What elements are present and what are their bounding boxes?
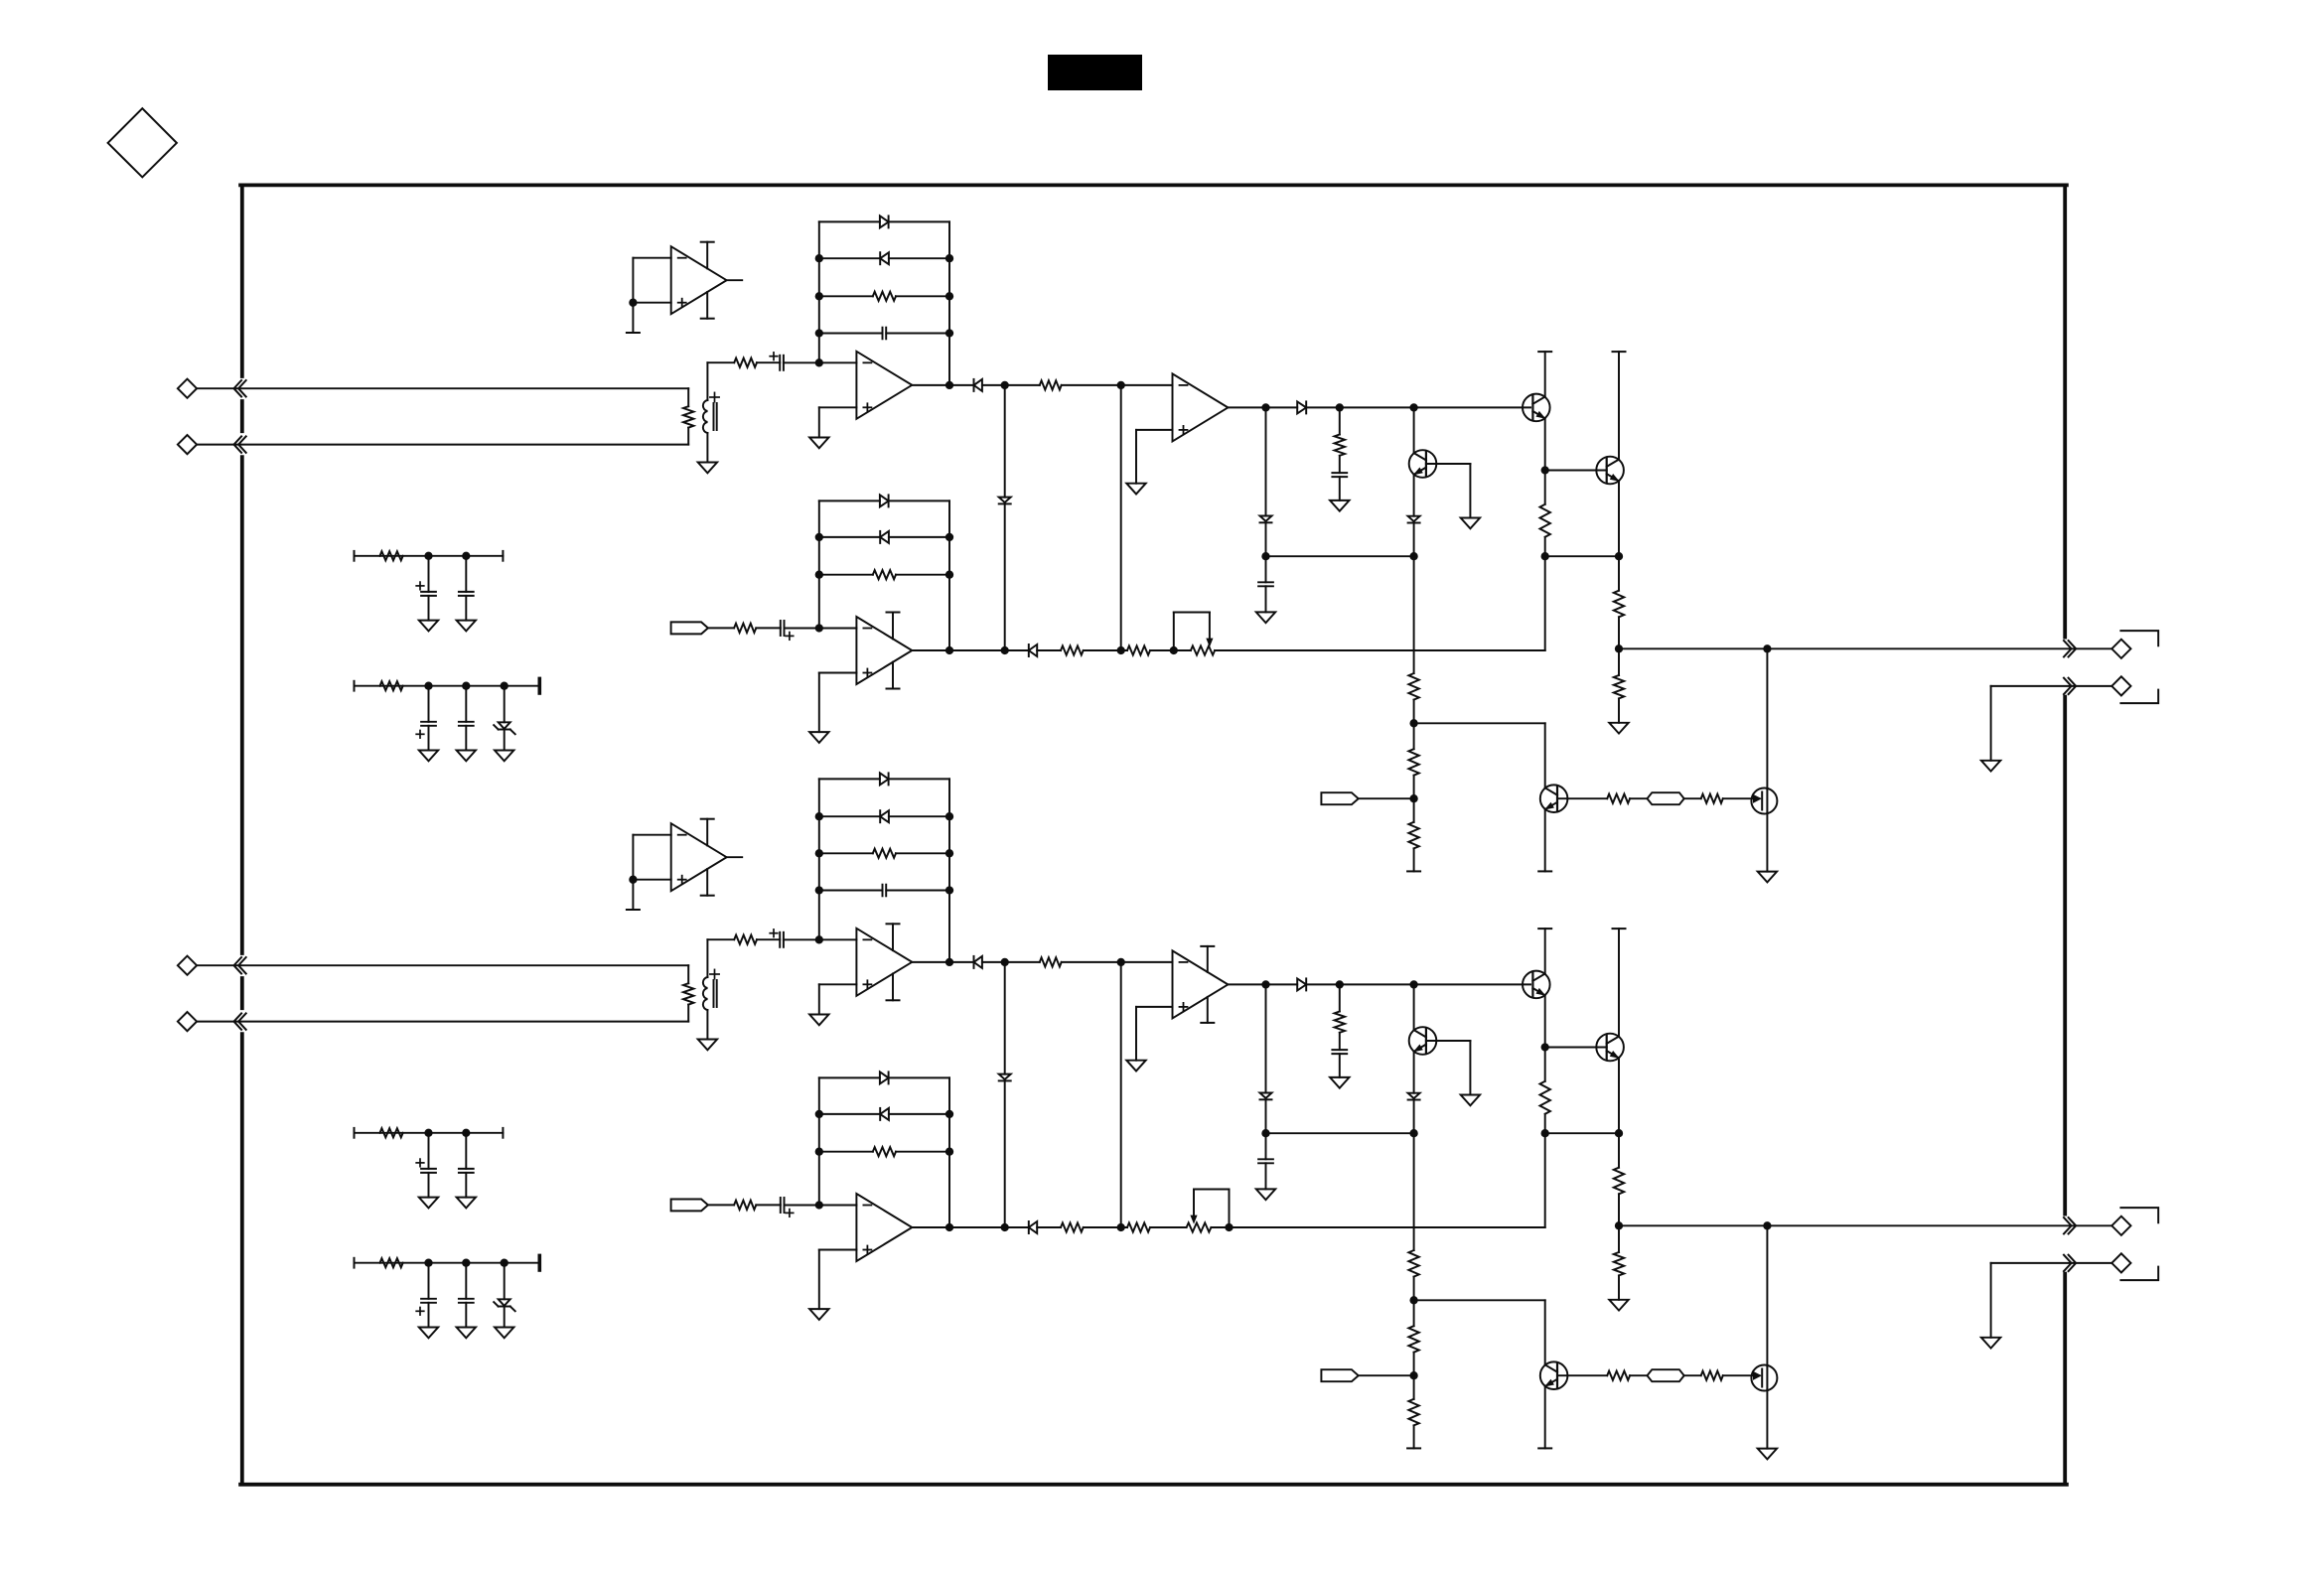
polarity plus mark transformer ch2 [710, 973, 719, 975]
supply tick bias rail ch1 [1407, 870, 1420, 872]
wire feedback rail to trimmer row ch2 [1544, 1133, 1546, 1227]
node Q14 emitter row [1615, 552, 1623, 560]
diode A23 feedback limiter (anode left) [819, 1076, 880, 1078]
capacitor filter 2 film ch1 [465, 686, 467, 722]
wire Q24 emitter down [1618, 1058, 1620, 1133]
wire Q12 base to ground ch1 [1426, 463, 1471, 465]
capacitor filter 2 film ch2 [465, 1263, 467, 1299]
chevron input hot ch1 [234, 380, 242, 396]
chevron input hot ch2 [234, 957, 242, 973]
node Q22 emitter row [1409, 1129, 1417, 1137]
wire A11 output [912, 384, 973, 386]
node Q22 collector tap ch2 [1409, 980, 1417, 988]
node A21 inverting input [815, 935, 823, 943]
wire U1 non-inverting [633, 302, 670, 304]
ground filter 2 zener ch1 [495, 751, 513, 762]
node filter 2 zener ch1 [501, 682, 508, 690]
wire Q11 collector to supply tick [1544, 352, 1546, 396]
wire A22 output to driver base [1306, 983, 1530, 985]
resistor Q15 base [1607, 794, 1630, 803]
ground transformer return ch2 [698, 1040, 717, 1051]
bracket output group top ch2 [2120, 1208, 2158, 1222]
input connector J2A (hot) [178, 956, 197, 975]
wire U2 non-inverting [633, 879, 670, 881]
wire Q21 emitter down [1544, 995, 1546, 1047]
op-amp A21 power pins [892, 924, 894, 950]
capacitor filter 1 electrolytic ch1 [428, 556, 430, 592]
wire ch1 [756, 627, 781, 629]
resistor A11 feedback [819, 295, 873, 297]
op-amp A22 power pins [1207, 946, 1209, 972]
capacitor filter 1 film ch2 [465, 1133, 467, 1169]
wire to A12 inverting input [1062, 384, 1173, 386]
op-amp A13 (third stage) [856, 617, 912, 684]
wire supply filter 2 ch1 [354, 681, 356, 691]
resistor bias middle ch1 [1413, 723, 1415, 749]
input connector J1B (cold) [178, 435, 197, 454]
transformer core bars ch1 [713, 403, 715, 430]
chevron input cold ch1 [234, 436, 242, 452]
node A23 output [945, 1223, 953, 1231]
capacitor A13 input (electrolytic) [780, 621, 782, 636]
diode rail A downward ch2 [999, 1074, 1011, 1079]
capacitor A23 input (electrolytic) [780, 1198, 782, 1213]
output connector P2A [2075, 1224, 2111, 1226]
transistor Q11 (driver) [1523, 394, 1550, 422]
wire gate ch1 [1723, 797, 1760, 799]
wire A13 output [912, 649, 1029, 651]
diode series after A22 (anode left) [1297, 978, 1306, 990]
op-amp A13 power pins [892, 613, 894, 640]
wire gate ch2 [1723, 1374, 1760, 1376]
node filter 2 zener ch2 [501, 1259, 508, 1267]
node filter 2 cap2 ch2 [462, 1259, 470, 1267]
input connector J1A (hot) [178, 379, 197, 398]
input connector J2B (cold) [178, 1012, 197, 1031]
node filter 2 cap1 ch1 [424, 682, 432, 690]
node Q12 collector tap ch1 [1409, 403, 1417, 411]
ground A11 non-inverting [809, 438, 828, 449]
node A12 output [1261, 403, 1269, 411]
resistor input termination ch1 [687, 388, 689, 406]
wire rail C down ch2 [1265, 984, 1267, 1092]
ground filter 1 cap1 ch1 [419, 621, 438, 632]
node Q24 emitter row [1615, 1129, 1623, 1137]
diode series A13 output (cathode left) [1029, 644, 1037, 656]
wire to input RC ch1 [707, 361, 734, 363]
resistor snub ch1 [1339, 407, 1341, 434]
resistor A23 output 1 [1061, 1222, 1084, 1231]
transistor Q21 (driver) [1523, 971, 1550, 999]
node A11 output [945, 381, 953, 389]
polarity plus mark transformer ch1 [710, 396, 719, 398]
border frame [240, 185, 2067, 1484]
resistor supply filter 1 ch1 [380, 551, 403, 560]
rail end bar filter 2 ch1 [537, 678, 541, 693]
output connector P1A [2075, 647, 2111, 649]
resistor supply filter 2 ch1 [380, 681, 403, 690]
ground filter 2 cap1 ch2 [419, 1328, 438, 1339]
wire bias to Q25 collector [1414, 1299, 1545, 1301]
wire ch1 [1150, 649, 1191, 651]
ground A23 non-inverting [809, 1309, 828, 1320]
wire input hot ch1 [197, 387, 688, 389]
rail end tick filter 1 ch2 [502, 1128, 504, 1138]
inductor transformer winding ch1 [706, 362, 708, 400]
node Q11 emitter / Q14 base [1541, 466, 1549, 474]
wire rail B down ch2 [1120, 962, 1122, 1227]
op-amp A12 (second stage) [1173, 373, 1229, 441]
wire U1 feedback tie [633, 257, 670, 259]
capacitor input coupling ch2 (electrolytic) [779, 932, 781, 947]
resistor bias upper ch1 [1413, 556, 1415, 673]
bracket output group bottom ch1 [2120, 690, 2158, 704]
resistor A23 feedback [819, 1151, 873, 1153]
diode A21 feedback limiter (anode left) [819, 778, 880, 780]
op-amp U2 spare buffer [671, 823, 727, 891]
node rail C row ch1 [1261, 552, 1269, 560]
transformer core bars ch2 [713, 980, 715, 1007]
revision diamond top-left [108, 108, 177, 177]
diode A13 feedback limiter (anode right) [819, 536, 880, 538]
resistor input series ch1 [734, 358, 757, 367]
ground filter 1 cap2 ch1 [457, 621, 476, 632]
ground Q12 base [1461, 518, 1480, 529]
resistor MOSFET gate ch1 [1701, 794, 1723, 803]
wire A12 output to driver base [1306, 406, 1530, 408]
supply tick bias rail ch2 [1407, 1447, 1420, 1449]
ground divider ch2 [1609, 1300, 1628, 1311]
node trimmer wiper tap ch1 [1170, 646, 1178, 654]
wire output line ch1 [1619, 647, 2075, 649]
wire A13 non-inverting to ground [819, 672, 857, 674]
diode A13 feedback limiter (anode left) [819, 500, 880, 501]
resistor Q11 emitter ch1 [1544, 471, 1546, 504]
diode A23 feedback limiter (anode right) [819, 1113, 880, 1115]
wire ch1 [757, 361, 780, 363]
wire ch2 [757, 938, 780, 940]
wire A11 feedback left rail [818, 221, 820, 362]
chevron output ch2 [2064, 1217, 2072, 1233]
node tap rail A ch1 [1001, 381, 1009, 389]
supply tick U2 [627, 909, 640, 911]
wire rail A down ch2 [1004, 962, 1006, 1074]
node rail B bottom ch2 [1117, 1223, 1125, 1231]
wire Q24 collector to supply tick [1618, 929, 1620, 1037]
capacitor rail C to ground ch1 [1265, 556, 1267, 582]
node A11 inverting input [815, 358, 823, 366]
zener supply clamp ch2 [504, 1263, 506, 1300]
wire output return ch2 [1991, 1262, 2075, 1264]
transistor Q12 [1413, 407, 1415, 453]
wire output line ch2 [1619, 1224, 2075, 1226]
ground filter 2 cap2 ch2 [457, 1328, 476, 1339]
wire tag to resistor ch2 [708, 1204, 734, 1206]
bracket output group bottom ch2 [2120, 1267, 2158, 1281]
ground filter 2 cap2 ch1 [457, 751, 476, 762]
node filter 2 cap1 ch2 [424, 1259, 432, 1267]
wire row C-D ch1 [1266, 555, 1414, 557]
node filter 1 cap2 ch2 [462, 1129, 470, 1137]
wire trimmer to feedback rail ch1 [1215, 649, 1545, 651]
node bias collector tap ch2 [1409, 1296, 1417, 1304]
trimmer potentiometer ch1 [1191, 645, 1215, 654]
node filter 1 cap1 ch1 [424, 552, 432, 560]
node bias label tap ch2 [1409, 1371, 1417, 1379]
wire rail A down ch1 [1004, 385, 1006, 498]
wire Q15 base [1557, 797, 1607, 799]
rail end bar filter 2 ch2 [537, 1255, 541, 1270]
wire U2 feedback tie [633, 834, 670, 836]
op-amp U1 power pins [706, 242, 708, 269]
ground Q22 base [1461, 1095, 1480, 1106]
rail end tick filter 1 ch1 [502, 551, 504, 561]
wire ch1 [1630, 797, 1647, 799]
wire tag to bias rail ch1 [1359, 797, 1414, 799]
transistor Q25 (mute) [1540, 1361, 1568, 1389]
node filter 2 cap2 ch1 [462, 682, 470, 690]
resistor divider upper ch2 [1618, 1133, 1620, 1168]
wire rail C down ch1 [1265, 407, 1267, 515]
net label mute tag ch2 [1321, 1369, 1358, 1381]
resistor divider lower ch1 [1618, 648, 1620, 675]
chevron output return ch2 [2064, 1255, 2072, 1271]
transistor Q24 [1596, 1034, 1624, 1062]
ground snub ch1 [1330, 500, 1349, 511]
wire input hot ch2 [197, 964, 688, 966]
node rail C row ch2 [1261, 1129, 1269, 1137]
wire ch2 [1630, 1374, 1647, 1376]
ground Q26 source [1758, 1449, 1777, 1460]
ground output return ch2 [1981, 1338, 2000, 1349]
ground Q16 source [1758, 872, 1777, 883]
node output MOSFET drain tap ch2 [1763, 1221, 1771, 1229]
wire Q21 emitter to Q24 base [1545, 1047, 1607, 1049]
diode series after A11 (cathode left) [974, 379, 982, 391]
node row left ch2 [1541, 1129, 1549, 1137]
resistor A23 input [734, 1201, 756, 1210]
wire supply filter 2 ch2 [354, 1258, 356, 1268]
node tap rail B ch2 [1117, 958, 1125, 966]
resistor supply filter 2 ch2 [380, 1258, 403, 1267]
wire into A23 inverting input [785, 1205, 857, 1207]
wire row left-right ch1 [1545, 555, 1619, 557]
wire tag to resistor ch1 [708, 627, 734, 629]
resistor input series ch2 [734, 935, 757, 944]
node row left ch1 [1541, 552, 1549, 560]
capacitor snub ch2 [1339, 1033, 1341, 1050]
capacitor rail C to ground ch2 [1265, 1133, 1267, 1159]
wire Q15 emitter to tick [1544, 809, 1546, 871]
resistor interstage ch1 [1040, 380, 1062, 389]
resistor supply filter 1 ch2 [380, 1128, 403, 1137]
node A13 output [945, 646, 953, 654]
resistor MOSFET gate ch2 [1701, 1371, 1723, 1380]
node output tap ch1 [1615, 644, 1623, 652]
diode rail A downward ch1 [999, 498, 1011, 502]
wire into A21 inverting input [784, 938, 857, 940]
wire A11 to A12 [982, 384, 1040, 386]
ground rail C ch2 [1256, 1189, 1275, 1200]
wire into A13 inverting input [785, 628, 857, 630]
node A23 inverting input [815, 1201, 823, 1209]
node Q12 emitter row [1409, 552, 1417, 560]
net label input tag ch2 [671, 1200, 708, 1212]
diode Q12 emitter downward [1413, 475, 1415, 516]
op-amp A11 (first stage) [856, 352, 912, 419]
resistor A13 output 2 [1127, 645, 1150, 654]
resistor A23 output 2 [1127, 1222, 1150, 1231]
wire ch2 [756, 1204, 781, 1206]
node Q21 emitter / Q24 base [1541, 1043, 1549, 1051]
transistor Q22 [1413, 984, 1415, 1030]
capacitor A21 feedback [819, 890, 883, 892]
wire Q14 emitter down [1618, 481, 1620, 556]
wire input cold ch2 [197, 1021, 688, 1023]
resistor bias lower ch1 [1413, 798, 1415, 822]
wire A22 non-inverting to ground [1136, 1006, 1173, 1008]
resistor A13 output 1 [1061, 645, 1084, 654]
node bias label tap ch1 [1409, 794, 1417, 802]
wire A23 output [912, 1226, 1029, 1228]
op-amp A21 (first stage) [856, 929, 912, 996]
wire ch2 [1684, 1374, 1701, 1376]
op-amp A23 (third stage) [856, 1194, 912, 1261]
wire ch2 [1150, 1226, 1187, 1228]
diode Q22 emitter downward [1413, 1052, 1415, 1093]
resistor A13 input [734, 624, 756, 633]
wire tag to bias rail ch2 [1359, 1374, 1414, 1376]
title block (blacked out) [1048, 55, 1142, 90]
wire ch1 [1037, 649, 1061, 651]
wire row left-right ch2 [1545, 1132, 1619, 1134]
diode series A23 output (cathode left) [1029, 1221, 1037, 1233]
net label mute line ch2 [1648, 1369, 1684, 1381]
wire ch2 [1084, 1226, 1127, 1228]
node tap rail B ch1 [1117, 381, 1125, 389]
wire Q25 base [1557, 1374, 1607, 1376]
node U1 input tie [629, 299, 637, 307]
wire to input RC ch2 [707, 938, 734, 940]
capacitor input coupling ch1 (electrolytic) [779, 356, 781, 370]
output connector P2B [2075, 1262, 2111, 1264]
node filter 1 cap2 ch1 [462, 552, 470, 560]
resistor bias lower ch2 [1413, 1375, 1415, 1399]
capacitor filter 1 electrolytic ch2 [428, 1133, 430, 1169]
wire A21 to A22 [982, 961, 1040, 963]
resistor divider upper ch1 [1618, 556, 1620, 591]
ground A12 non-inverting [1126, 484, 1145, 495]
supply tick U1 [627, 332, 640, 334]
op-amp U1 spare buffer [671, 246, 727, 314]
wire feedback rail to trimmer row ch1 [1544, 556, 1546, 650]
wire bias to Q15 collector [1414, 722, 1545, 724]
resistor Q21 emitter ch2 [1544, 1048, 1546, 1081]
chevron input cold ch2 [234, 1013, 242, 1029]
wire input cold ch1 [197, 444, 688, 446]
node trimmer wiper tap ch2 [1225, 1223, 1233, 1231]
transistor Q16 (MOSFET mute switch) [1766, 648, 1768, 788]
wire A23 non-inverting to ground [819, 1249, 857, 1251]
wire A23 feedback right rail [948, 1077, 950, 1227]
diode series after A12 (anode left) [1297, 401, 1306, 413]
transistor Q26 (MOSFET mute switch) [1766, 1225, 1768, 1365]
diode rail C downward ch1 [1260, 516, 1272, 521]
wire A21 feedback right rail [948, 779, 950, 962]
ground output return ch1 [1981, 761, 2000, 772]
resistor bias upper ch2 [1413, 1133, 1415, 1250]
capacitor filter 2 electrolytic ch2 [428, 1263, 430, 1299]
node RC snub tap ch2 [1336, 980, 1344, 988]
ground snub ch2 [1330, 1077, 1349, 1088]
wire A21 feedback left rail [818, 779, 820, 939]
wire A12 output [1228, 406, 1297, 408]
wire to A22 inverting input [1062, 961, 1173, 963]
resistor snub ch2 [1339, 984, 1341, 1011]
node A22 output [1261, 980, 1269, 988]
wire Q25 emitter to tick [1544, 1386, 1546, 1448]
node A13 inverting input [815, 624, 823, 632]
wire ch1 [1084, 649, 1127, 651]
resistor interstage ch2 [1040, 957, 1062, 966]
resistor divider lower ch2 [1618, 1225, 1620, 1252]
op-amp U2 power pins [706, 819, 708, 846]
wire Q26 source to ground [1766, 1390, 1768, 1449]
node RC snub tap ch1 [1336, 403, 1344, 411]
node rail A bottom ch2 [1001, 1223, 1009, 1231]
capacitor filter 2 electrolytic ch1 [428, 686, 430, 722]
inductor transformer winding ch2 [706, 939, 708, 977]
ground A22 non-inverting [1126, 1061, 1145, 1072]
wire ch2 [1037, 1226, 1061, 1228]
net label mute tag ch1 [1321, 792, 1358, 804]
output connector P1B [2075, 685, 2111, 687]
diode A11 feedback limiter (anode right) [819, 257, 880, 259]
wire A21 output [912, 961, 973, 963]
node output MOSFET drain tap ch1 [1763, 644, 1771, 652]
capacitor filter 1 film ch1 [465, 556, 467, 592]
node rail B bottom ch1 [1117, 646, 1125, 654]
wire supply filter 1 ch1 [354, 551, 356, 561]
ground filter 1 cap2 ch2 [457, 1198, 476, 1209]
op-amp A22 (second stage) [1173, 950, 1229, 1018]
diode series after A21 (cathode left) [974, 956, 982, 968]
node bias collector tap ch1 [1409, 719, 1417, 727]
node rail A bottom ch1 [1001, 646, 1009, 654]
bracket output group top ch1 [2120, 631, 2158, 645]
wire A11 non-inverting to ground [819, 406, 857, 408]
ground A21 non-inverting [809, 1015, 828, 1026]
wire Q21 collector to supply tick [1544, 929, 1546, 973]
ground filter 1 cap1 ch2 [419, 1198, 438, 1209]
wire ch1 [1684, 797, 1701, 799]
diode A11 feedback limiter (anode left) [819, 220, 880, 222]
wire Q16 source to ground [1766, 813, 1768, 872]
resistor A13 feedback [819, 574, 873, 576]
node A21 output [945, 958, 953, 966]
wire A13 feedback right rail [948, 500, 950, 650]
wire A23 feedback left rail [818, 1077, 820, 1205]
capacitor snub ch1 [1339, 456, 1341, 473]
wire supply filter 1 ch2 [354, 1128, 356, 1138]
zener supply clamp ch1 [504, 686, 506, 723]
trimmer potentiometer ch2 [1187, 1222, 1212, 1231]
wire A13 feedback left rail [818, 500, 820, 628]
wire A21 non-inverting to ground [819, 983, 857, 985]
wire row C-D ch2 [1266, 1132, 1414, 1134]
node filter 1 cap1 ch2 [424, 1129, 432, 1137]
wire A12 non-inverting to ground [1136, 429, 1173, 431]
